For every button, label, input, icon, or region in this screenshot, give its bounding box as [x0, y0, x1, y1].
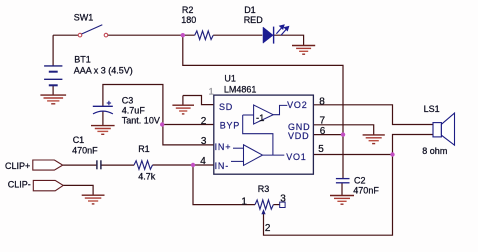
svg-text:C3: C3 [122, 96, 134, 106]
svg-text:VO1: VO1 [286, 152, 306, 162]
svg-text:RED: RED [244, 15, 264, 25]
svg-text:8: 8 [319, 96, 325, 107]
svg-text:IN-: IN- [215, 161, 229, 171]
svg-text:SD: SD [219, 102, 233, 112]
svg-text:8 ohm: 8 ohm [422, 146, 447, 156]
svg-text:4.7uF: 4.7uF [122, 106, 146, 116]
svg-text:7: 7 [320, 116, 326, 127]
svg-text:C2: C2 [354, 176, 366, 186]
svg-text:BYP: BYP [220, 121, 240, 131]
svg-text:LS1: LS1 [424, 104, 440, 114]
svg-text:1: 1 [209, 87, 214, 97]
svg-text:Tant. 10V: Tant. 10V [122, 116, 160, 126]
svg-text:3: 3 [201, 136, 207, 147]
svg-text:R1: R1 [138, 144, 150, 154]
svg-text:R2: R2 [182, 5, 194, 15]
svg-text:470nF: 470nF [353, 186, 379, 196]
svg-text:R3: R3 [258, 184, 270, 194]
svg-text:1: 1 [241, 196, 247, 207]
svg-text:180: 180 [181, 15, 196, 25]
svg-text:C1: C1 [73, 135, 85, 145]
svg-text:4.7k: 4.7k [138, 172, 156, 182]
svg-text:-1: -1 [256, 113, 264, 124]
svg-text:IN+: IN+ [215, 142, 232, 152]
svg-text:3: 3 [280, 193, 286, 204]
svg-text:470nF: 470nF [72, 145, 98, 155]
svg-text:CLIP-: CLIP- [8, 179, 31, 189]
svg-text:5: 5 [318, 144, 324, 155]
svg-text:2: 2 [265, 223, 271, 234]
svg-text:D1: D1 [244, 5, 256, 15]
svg-text:AAA x 3 (4.5V): AAA x 3 (4.5V) [74, 65, 133, 75]
svg-text:U1: U1 [224, 74, 236, 84]
svg-text:6: 6 [320, 126, 326, 137]
svg-text:CLIP+: CLIP+ [5, 161, 30, 171]
svg-text:SW1: SW1 [74, 12, 94, 22]
svg-text:2: 2 [201, 116, 207, 127]
svg-text:BT1: BT1 [74, 55, 91, 65]
svg-text:4: 4 [200, 156, 206, 167]
svg-text:LM4861: LM4861 [224, 84, 257, 94]
svg-text:VO2: VO2 [287, 100, 307, 110]
svg-text:VDD: VDD [288, 131, 309, 141]
